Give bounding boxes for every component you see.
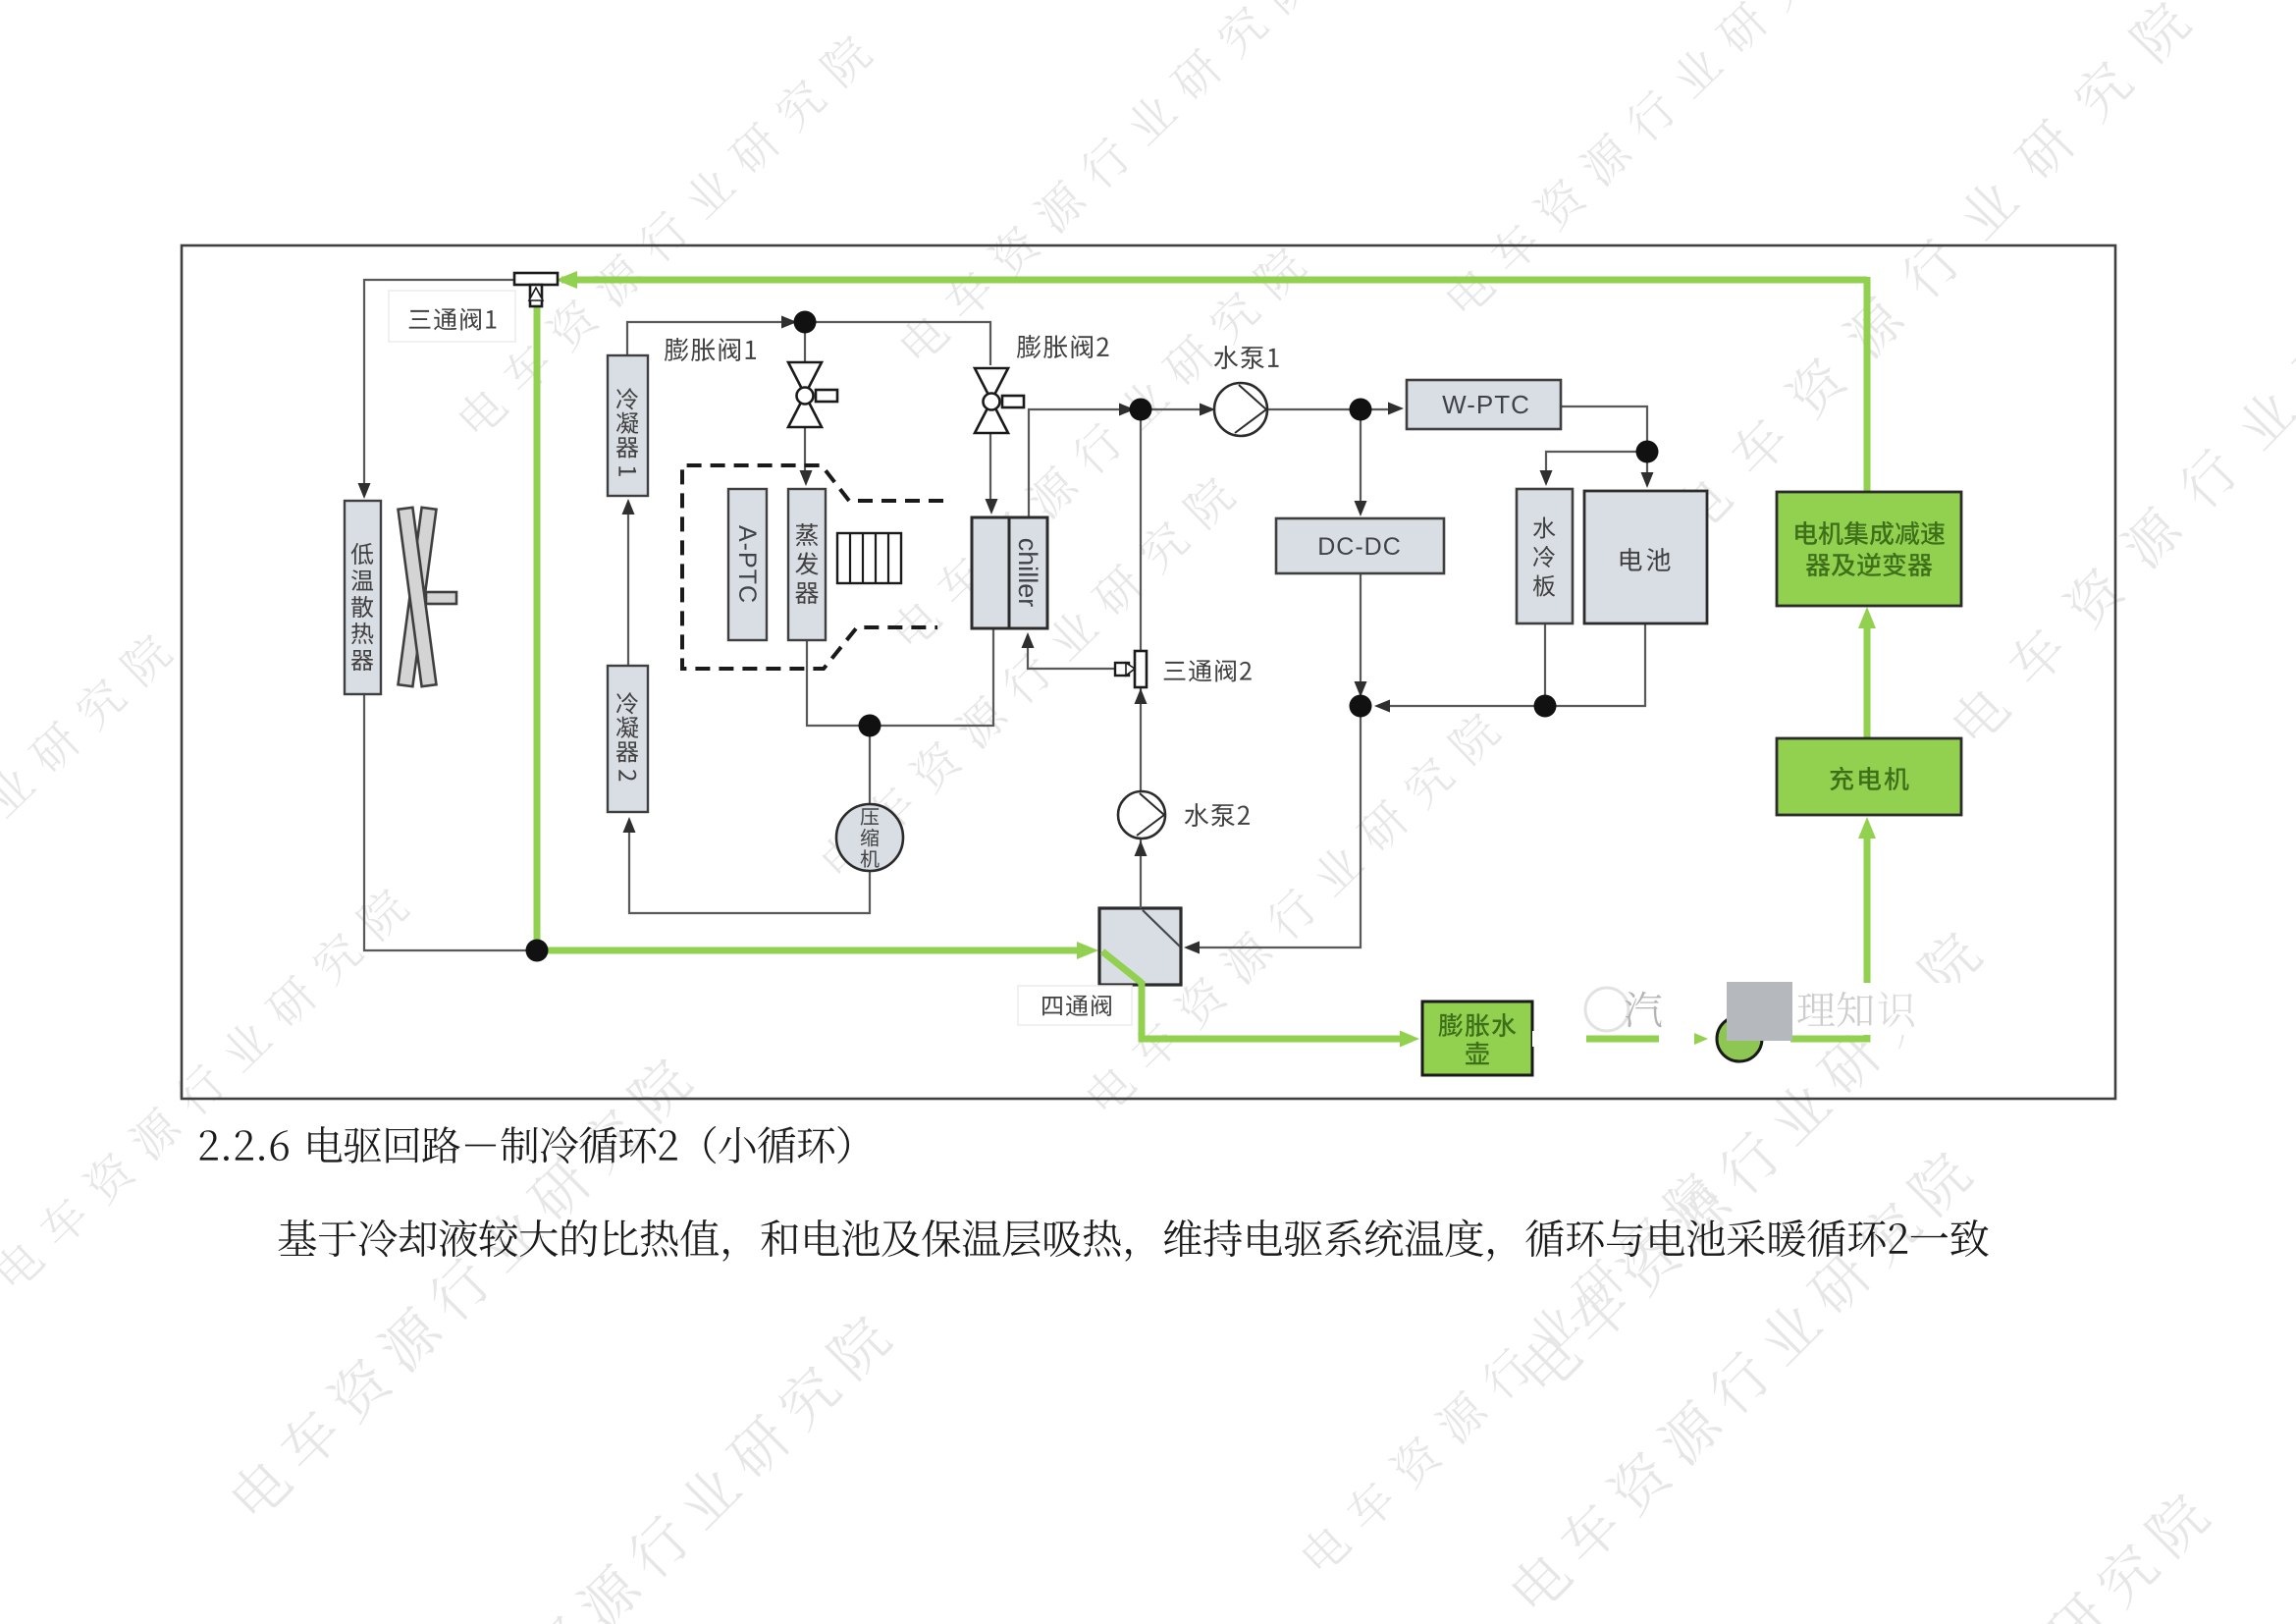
arrow into chiller top [986,499,998,514]
wire cold plate bottom [1544,623,1546,706]
four-way valve 四通阀 [1099,908,1181,985]
node J8 green loop junction [526,940,549,962]
expansion valve EV2 膨胀阀2 [975,368,1024,433]
green arrow into expansion tank [1400,1031,1419,1048]
wire expansion valve2 to chiller [989,433,991,507]
green arrow into charger [1858,817,1876,839]
condenser C1 冷凝器1 [608,355,648,496]
watermark pattern 电车资源行业研究院 [0,883,412,1292]
label 四通阀 [1042,995,1111,1016]
arrow into junction [1119,404,1135,416]
wire junction down to four-way valve right [1190,706,1361,947]
logo avatar circle [1717,1016,1762,1061]
wire junction down to three-way valve 2 [1140,409,1142,651]
evaporator 蒸发器 [788,489,826,640]
svg-text:DC-DC: DC-DC [1317,533,1402,561]
wire valve1 to radiator [364,280,516,491]
wire compressor top [869,726,871,804]
wire chiller top to pump1 junction [1029,409,1129,517]
green arrow into motor box [1858,607,1876,628]
arrow into chiller bottom [1022,632,1035,648]
wire green inside four-way valve [1102,951,1142,983]
label bg 四通阀 [1018,986,1132,1025]
wire battery bottom to junction line [1378,623,1645,706]
W-PTC heater [1407,380,1561,429]
expansion valve EV1 膨胀阀1 [788,362,837,427]
arrow into condenser1 bottom [622,499,635,514]
wire evaporator bottom / chiller bottom loop [807,628,993,726]
cold plate 水冷板 [1517,489,1573,623]
pump P2 水泵2 [1118,791,1165,839]
arrow on top line [781,316,797,329]
wire green left vertical [534,305,541,950]
wire pump1 to WPTC [1267,408,1398,410]
chiller divider [1008,517,1011,628]
arrow into bottom junction [1355,681,1367,697]
label 三通阀1 [409,308,497,331]
expansion tank 膨胀水壶 [1422,1001,1532,1075]
arrow into evaporator top [800,470,813,486]
charger 充电机 [1777,738,1961,815]
node J5 compressor tap [859,715,881,737]
wire green bottom horizontal to four-way valve [537,947,1088,954]
diagram frame [182,245,2115,1099]
wire three-way valve2 to chiller bottom [1028,640,1117,669]
logo gray box [1727,982,1792,1041]
label 水泵2 [1185,803,1250,827]
wire compressor bottom to condenser2 [629,825,870,913]
wire green top horizontal [561,277,1867,284]
section heading number [200,1130,289,1161]
node J1 refrigerant top line [794,311,817,334]
wire green expansion tank to charger [1532,827,1867,1039]
wire expansion valve1 to evaporator [804,427,806,478]
wire junction to battery top [1646,452,1648,481]
wire WPTC right to battery junction [1561,406,1647,442]
four-way valve diagonal [1143,910,1180,947]
arrow into condenser2 bottom [623,817,636,833]
battery 电池 [1584,491,1707,623]
wire junction to pump1 [1141,408,1209,410]
arrow into three-way valve 2 [1135,688,1148,704]
wire condenser2 to condenser1 [627,507,629,666]
motor+reducer+inverter box 电机集成减速器及逆变器 [1777,492,1961,606]
DC-DC converter [1276,518,1444,573]
body text [279,1218,1989,1261]
label bg 三通阀1 [389,291,515,342]
chiller [972,517,1047,628]
pump P1 水泵1 [1214,383,1267,436]
wire DCDC bottom to junction [1360,573,1362,706]
section heading [308,1126,849,1164]
three-way valve V1 三通阀1 [514,273,558,285]
arrow into bottom junction from right [1374,700,1390,713]
svg-text:A-PTC: A-PTC [733,525,761,604]
logo text 理知 [1797,992,1873,1027]
arrow into cold plate top [1540,470,1553,486]
label 膨胀阀1 [665,338,756,361]
heater core grid [837,533,901,583]
node J6 coolant return [1350,695,1372,718]
wire green from four-way valve to expansion tank [1142,981,1408,1039]
arrow into DC-DC [1355,501,1367,516]
label 三通阀2 [1164,660,1252,682]
node J4 battery branch [1636,441,1659,463]
wire condenser1 top to expansion valves [627,322,990,365]
svg-text:W-PTC: W-PTC [1442,390,1530,419]
node J2 pump1 inlet [1130,399,1152,421]
wire DCDC top [1360,409,1362,512]
arrow into battery top [1641,472,1654,488]
A-PTC heater [728,489,767,640]
arrow into pump2 [1135,840,1148,856]
label 膨胀阀2 [1017,335,1109,358]
wire four-way valve to pump2 [1140,839,1142,908]
fan blades [399,508,456,686]
arrow into W-PTC [1388,403,1404,415]
node J3 WPTC branch [1350,399,1372,421]
radiator 低温散热器 [345,501,381,694]
arrow into pump1 [1200,404,1215,416]
wire radiator bottom to green junction [364,694,535,950]
wire green charger to motor box [1864,617,1871,738]
three-way valve V2 三通阀2 [1135,651,1147,687]
green arrow into three-way valve 1 [556,271,577,289]
wire junction to expansion valve 1 [804,322,806,363]
logo char 汽 [1625,992,1661,1028]
dashed HVAC enclosure [682,465,943,669]
partially erased logo strip [1534,983,2040,1035]
logo text 识 [1878,992,1913,1027]
condenser C2 冷凝器2 [608,666,648,812]
node J7 coldplate return [1534,695,1557,718]
arrow into radiator top [358,483,371,499]
svg-text:chiller: chiller [1013,538,1042,608]
wire green right vertical to motor [1864,277,1871,492]
compressor 压缩机 [836,804,903,871]
wire junction to cold plate [1546,452,1647,478]
arrow into four-way valve right [1184,942,1200,954]
label 水泵1 [1214,346,1279,369]
wire pump2 to valve2 [1140,687,1142,791]
green arrow into four-way valve [1077,942,1098,959]
